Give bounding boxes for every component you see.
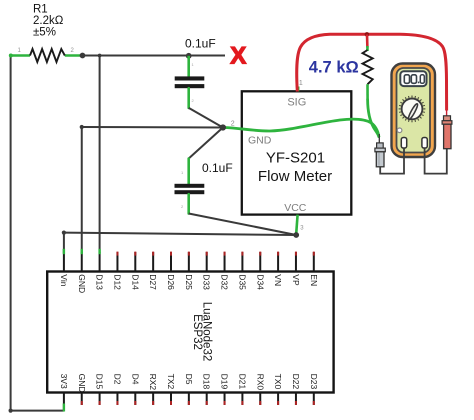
svg-text:0.1uF: 0.1uF — [202, 161, 233, 175]
svg-text:D13: D13 — [95, 274, 105, 290]
pin D26 — [166, 252, 176, 291]
multimeter indicator dot — [397, 128, 402, 133]
svg-text:D18: D18 — [202, 374, 212, 390]
junction dot Vin — [62, 231, 66, 235]
wire horizontal Vin branch — [64, 233, 296, 235]
R1 value label — [33, 4, 64, 39]
multimeter jack 1 — [401, 138, 406, 149]
svg-text:Vin: Vin — [59, 274, 69, 286]
svg-text:VCC: VCC — [284, 202, 307, 214]
svg-text:2.2kΩ: 2.2kΩ — [33, 15, 64, 27]
svg-text:R1: R1 — [33, 4, 48, 16]
wire horizontal from R1 to X — [83, 55, 226, 57]
red probe — [442, 110, 452, 149]
svg-text:D21: D21 — [237, 374, 247, 390]
pin D33 — [202, 252, 212, 291]
black probe — [375, 134, 385, 167]
junction dot GND left — [80, 125, 84, 129]
pin GND top — [77, 249, 87, 293]
pin TX0 — [273, 374, 283, 405]
svg-text:GND: GND — [248, 135, 272, 147]
pin EN — [309, 252, 319, 287]
svg-text:4.7 kΩ: 4.7 kΩ — [309, 59, 359, 77]
wire green VCC pin to node 3 — [296, 215, 298, 235]
pin D18 — [202, 374, 212, 405]
svg-text:TX2: TX2 — [166, 374, 176, 390]
svg-text:D2: D2 — [112, 374, 122, 385]
pin TX2 — [166, 374, 176, 405]
pin Vin — [59, 249, 69, 287]
pin D25 — [184, 252, 194, 291]
wire from Vin branch down to pin Vin — [63, 233, 65, 253]
svg-text:D23: D23 — [309, 374, 319, 390]
ESP32 board — [47, 272, 333, 393]
wire from jack1 to black probe — [380, 148, 404, 173]
pin D19 — [220, 374, 230, 405]
svg-text:Flow Meter: Flow Meter — [258, 168, 332, 185]
multimeter body — [392, 64, 436, 158]
capacitor C2 — [175, 159, 205, 214]
svg-text:SIG: SIG — [287, 97, 306, 109]
svg-text:GND: GND — [77, 274, 87, 293]
pin D34 — [255, 252, 265, 291]
svg-text:VN: VN — [273, 274, 283, 286]
wire green from R2 bottom to black probe — [368, 100, 379, 137]
svg-text:D35: D35 — [237, 274, 247, 290]
junction node for D13 branch — [98, 54, 102, 58]
node 3 junction dot — [293, 232, 299, 238]
svg-text:±5%: ±5% — [33, 27, 56, 39]
resistor R2 4.7k — [363, 34, 373, 99]
pin GND bottom — [77, 374, 87, 405]
svg-text:D4: D4 — [130, 374, 140, 385]
svg-text:D5: D5 — [184, 374, 194, 385]
svg-text:TX0: TX0 — [273, 374, 283, 390]
SIG pin stub (green) — [297, 87, 299, 92]
wire red from SIG to red probe — [297, 34, 447, 110]
svg-text:2: 2 — [231, 121, 235, 128]
pin D4 — [130, 374, 140, 405]
node 2 junction dot — [220, 124, 226, 130]
svg-text:D19: D19 — [220, 374, 230, 390]
svg-text:ESP32: ESP32 — [191, 314, 203, 350]
svg-text:0.1uF: 0.1uF — [185, 36, 216, 50]
svg-text:D15: D15 — [95, 374, 105, 390]
pin D2 — [112, 374, 122, 405]
pin D13 — [95, 249, 105, 290]
svg-text:D25: D25 — [184, 274, 194, 290]
multimeter dial ticks — [399, 96, 426, 123]
wire from R1 pin1 down left side and along bottom to 3V3 — [9, 56, 64, 413]
wire from node down to pin D13 — [99, 56, 101, 254]
wire from GND branch down to pin GND — [81, 127, 83, 253]
pin D15 — [95, 374, 105, 405]
svg-text:D26: D26 — [166, 274, 176, 290]
wire diagonal node 2 to capacitor C2 top — [189, 128, 223, 159]
multimeter jack 2 — [422, 138, 427, 149]
flow meter U1 box — [242, 91, 351, 214]
svg-text:D33: D33 — [202, 274, 212, 290]
pin D21 — [237, 374, 247, 405]
wire from jack2 to red probe — [425, 148, 447, 173]
wire diagonal C1 bottom to node 2 — [189, 108, 223, 128]
pin D35 — [237, 252, 247, 291]
svg-text:D32: D32 — [220, 274, 230, 290]
wire horizontal GND branch — [82, 126, 223, 129]
svg-text:3V3: 3V3 — [59, 374, 69, 389]
multimeter needle — [407, 103, 419, 120]
svg-text:GND: GND — [77, 374, 87, 393]
svg-text:YF-S201: YF-S201 — [266, 150, 325, 167]
pin D23 — [309, 374, 319, 405]
svg-text:1: 1 — [299, 80, 303, 87]
multimeter LCD — [400, 71, 426, 86]
svg-text:RX2: RX2 — [148, 374, 158, 391]
svg-text:D34: D34 — [255, 274, 265, 290]
svg-text:EN: EN — [309, 274, 319, 286]
junction dot at R1 pin2 — [80, 53, 86, 59]
pin D12 — [112, 252, 122, 291]
svg-text:X: X — [230, 43, 246, 70]
pin D22 — [291, 374, 301, 405]
pin 3V3 — [59, 374, 69, 412]
svg-text:RX0: RX0 — [255, 374, 265, 391]
pin VP — [291, 252, 301, 286]
junction dot at capacitor C1 top — [186, 53, 192, 59]
svg-text:VP: VP — [291, 274, 301, 286]
pin VN — [273, 252, 283, 287]
wire green from node 2 through box to black probe — [223, 119, 379, 136]
pin RX2 — [148, 374, 158, 405]
pin D14 — [130, 252, 140, 291]
junction dot on red wire — [365, 32, 370, 37]
multimeter knob — [402, 99, 423, 120]
capacitor C1 — [175, 56, 205, 108]
svg-text:D14: D14 — [130, 274, 140, 290]
pin D32 — [220, 252, 230, 291]
pin RX0 — [255, 374, 265, 405]
resistor R1 — [9, 49, 82, 62]
pin D5 — [184, 374, 194, 405]
pin D27 — [148, 252, 158, 291]
svg-text:D22: D22 — [291, 374, 301, 390]
wire diagonal C2 bottom to node 3 — [189, 214, 297, 236]
svg-text:D27: D27 — [148, 274, 158, 290]
svg-text:D12: D12 — [112, 274, 122, 290]
